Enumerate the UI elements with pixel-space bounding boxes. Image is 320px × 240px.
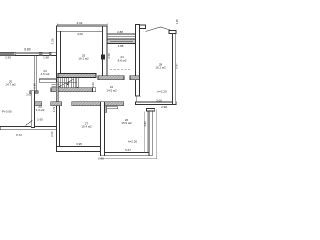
svg-text:3.95: 3.95 [76,142,82,146]
wall: room 20 east vertical [31,91,34,128]
svg-text:4.00: 4.00 [77,32,83,36]
wall: band B below stair [51,88,93,92]
wall: right lower vertical (room 26 east) [149,109,152,156]
svg-text:h=2.20: h=2.20 [128,139,138,143]
wall: tab at top of room26 east wall [147,109,155,111]
bay window outline room 28 [146,27,175,32]
svg-text:14.7 м2: 14.7 м2 [5,83,16,87]
svg-text:2.98: 2.98 [161,105,167,109]
wall: left lower vertical (room 27 west) [56,102,59,152]
svg-text:1.73: 1.73 [52,106,56,112]
wall: bottom of room 21 (south wall) [98,76,124,80]
window band north of room 21 [107,34,136,43]
wall: tab left of room28 wall at door [130,76,140,80]
wall: room 27/26 divider vertical [101,102,105,156]
wall: room 25 left [57,26,61,78]
svg-text:3.00: 3.00 [156,99,162,103]
stair mid landing line [58,82,77,84]
duct: dark block in room25 right wall [101,54,105,59]
svg-text:2.88: 2.88 [118,44,124,48]
svg-text:2.90: 2.90 [5,55,11,59]
wall: room21/28 shared vertical [135,25,139,97]
door leaf below wall C [107,107,118,109]
wall: room 24 south [39,79,56,82]
wall: top-left exterior wall [0,52,57,55]
h=2.20 thin lines in room 26 [100,110,157,159]
wall: notch horizontal (south of room 28) [136,102,176,104]
svg-text:1.05: 1.05 [175,19,179,25]
wall C: long corridor south wall [35,102,42,106]
dashed ceiling-height line in room 21 [110,68,131,70]
wall: bottom-left exterior wall [0,127,60,130]
svg-text:4.5 м2: 4.5 м2 [41,72,50,76]
svg-text:14.5 м2: 14.5 м2 [106,88,117,92]
wall: band A above stair [58,74,96,78]
svg-text:4.93: 4.93 [143,121,147,127]
wall: room 25 right [103,26,107,80]
svg-text:4.02: 4.02 [77,21,83,25]
svg-text:0.97: 0.97 [175,63,179,69]
svg-text:8.8 м2: 8.8 м2 [118,58,127,62]
wall: room 24 west vertical [34,56,37,91]
svg-text:1.20: 1.20 [91,82,95,88]
svg-text:h=2.20: h=2.20 [157,90,167,94]
svg-text:P+0.00: P+0.00 [2,109,12,113]
svg-text:0.95: 0.95 [98,156,104,160]
wall: right upper vertical (room 28 east) [173,31,176,105]
svg-text:1.98: 1.98 [43,56,49,60]
wall: stub right of band B [93,88,96,92]
svg-text:0.90: 0.90 [32,83,36,89]
stair arrow [59,79,74,87]
dim line above room 25 [57,23,107,26]
wall: bottom-right exterior [101,152,153,155]
svg-text:15.4 м2: 15.4 м2 [81,125,92,129]
svg-text:16.1 м2: 16.1 м2 [78,57,89,61]
svg-text:2.61: 2.61 [50,131,54,137]
wall: stair hall west vertical [56,78,58,102]
svg-text:15.2 м2: 15.2 м2 [155,66,166,70]
stair treads [52,78,76,88]
wall: room 27 bottom exterior [56,147,104,152]
svg-text:2.88: 2.88 [117,30,123,34]
door leaf in room 20 [25,120,32,125]
wall: stub below wall C [102,106,106,113]
wall: head tab at room20 east wall top [30,91,38,94]
svg-text:3.58: 3.58 [107,53,111,59]
svg-text:6.72: 6.72 [16,133,22,137]
svg-text:15.5 м2: 15.5 м2 [121,121,132,125]
stair rail [77,78,79,88]
svg-text:5.67: 5.67 [125,148,131,152]
wall: tab left of room28 ne corner [169,31,176,34]
svg-text:6.80: 6.80 [24,48,30,52]
wall: room 25 top [57,26,107,31]
wall: tab right of room28 nw corner [140,25,146,28]
svg-text:2.60: 2.60 [37,117,43,121]
svg-text:2.00: 2.00 [26,93,32,97]
svg-text:3.29: 3.29 [50,38,54,44]
thin line below room28 west wall to notch [136,96,141,102]
svg-text:3.3 м2: 3.3 м2 [36,108,45,112]
